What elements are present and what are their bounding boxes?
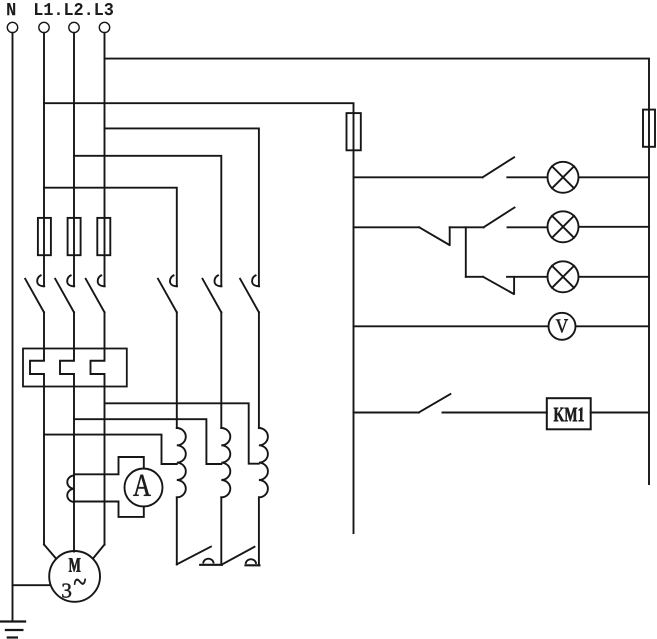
wire L1 tap to coil T1 xyxy=(44,435,177,464)
breaker QF pole 1 xyxy=(25,275,44,312)
row 5: wire to coil xyxy=(443,412,547,414)
star switch contact S1 xyxy=(200,559,222,565)
row 3: NC contact blade xyxy=(483,277,513,294)
star switch blade S2 xyxy=(221,547,254,565)
wire L1 fuse to contact xyxy=(43,218,45,286)
fuse FU1 xyxy=(38,218,51,255)
ground xyxy=(1,622,25,638)
CT coil on L2 xyxy=(67,476,74,503)
row 5: wire right xyxy=(591,412,649,414)
row 2: wire right xyxy=(579,226,650,228)
wire L2 feed to pole 5 xyxy=(74,156,221,286)
lamp HL1 xyxy=(548,162,579,193)
breaker QF pole 5 xyxy=(203,275,222,312)
motor M xyxy=(49,551,100,602)
terminal L2 xyxy=(69,22,79,32)
fuse FU3 xyxy=(97,218,110,255)
fuse FU2 xyxy=(68,218,81,255)
row 5: contact blade xyxy=(419,394,451,413)
row 2: NC contact blade xyxy=(419,227,449,245)
FR heater element 1 xyxy=(30,312,44,544)
wire L3 to right bus xyxy=(105,59,650,484)
wire L2 upper xyxy=(73,33,75,218)
wire L1 upper xyxy=(43,33,45,218)
contactor coil KM1 xyxy=(547,398,591,429)
wire ammeter loop top xyxy=(74,457,144,474)
thermal overload relay FR box xyxy=(23,349,127,387)
lamp HL2 xyxy=(548,211,579,242)
breaker QF pole 2 xyxy=(55,275,74,312)
row 2: wire left xyxy=(354,226,420,228)
wire L3 fuse to contact xyxy=(104,218,106,286)
terminal L3 xyxy=(99,22,109,32)
row 3: wire to lamp xyxy=(507,276,548,278)
wire L1 to left control bus xyxy=(44,103,354,533)
label L1.L2.L3 xyxy=(35,3,113,15)
wire L3 to motor xyxy=(93,545,104,559)
star switch blade S1 xyxy=(177,547,211,565)
wire L1 feed to pole 4 xyxy=(44,188,177,287)
row 1: wire left xyxy=(354,176,483,178)
row 2: contact blade xyxy=(484,208,515,228)
lamp HL3 xyxy=(548,261,579,292)
wire L2 tap to coil T2 xyxy=(74,419,221,464)
autotransformer coil T3 xyxy=(259,312,268,565)
row 3: NC contact seat xyxy=(513,277,515,294)
wire ammeter loop bottom xyxy=(74,502,144,517)
autotransformer coil T2 xyxy=(221,312,230,564)
wire L1 to motor xyxy=(44,545,56,559)
FR heater element 3 xyxy=(91,312,105,544)
autotransformer coil T1 xyxy=(177,312,186,564)
label N xyxy=(7,3,15,15)
row 4: wire right xyxy=(576,325,650,327)
row 2: wire middle xyxy=(450,226,484,228)
terminal N xyxy=(7,22,17,32)
fuse FU4 (left control) xyxy=(347,113,361,150)
voltmeter V xyxy=(549,313,576,340)
row 2: NC contact seat xyxy=(449,227,451,245)
wire L2 fuse to contact xyxy=(73,218,75,286)
wire N vertical xyxy=(12,33,14,622)
star switch contact S2 xyxy=(246,559,260,565)
terminal L1 xyxy=(39,22,49,32)
row 4: wire left xyxy=(354,325,549,327)
breaker QF pole 6 xyxy=(240,275,259,312)
row 1: contact KM blade xyxy=(483,157,514,177)
row 5: wire left xyxy=(354,412,419,414)
wire N to motor xyxy=(13,584,50,586)
wire tap row2 to row3 xyxy=(465,227,467,276)
breaker QF pole 3 xyxy=(86,275,105,312)
row 1: wire to lamp xyxy=(507,176,547,178)
FR heater element 2 xyxy=(60,312,74,551)
wire L3 feed to pole 6 xyxy=(105,128,259,286)
breaker QF pole 4 xyxy=(158,275,177,312)
row 2: wire to lamp xyxy=(508,226,548,228)
fuse FU5 (right) xyxy=(643,110,655,147)
row 3: wire left xyxy=(466,276,483,278)
wire L3 upper xyxy=(104,33,106,218)
wire L3 tap to coil T3 xyxy=(105,403,259,463)
ammeter A xyxy=(125,469,163,507)
row 3: wire right xyxy=(579,276,650,278)
row 1: wire right xyxy=(579,176,650,178)
